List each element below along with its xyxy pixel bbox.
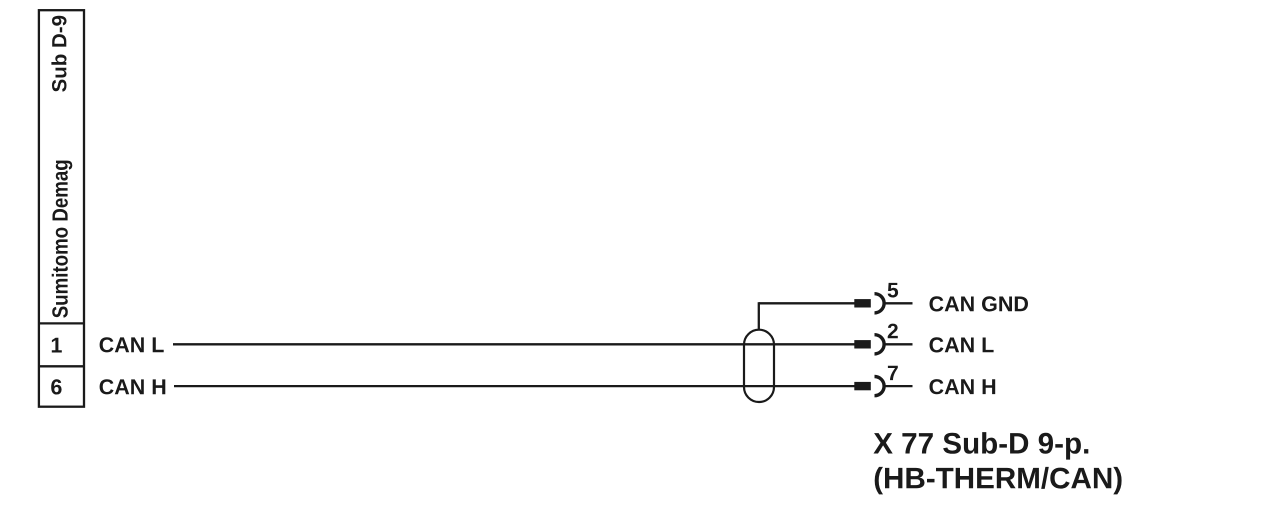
pin 2 contact socket arc — [875, 335, 885, 354]
pin 2 stub line — [884, 343, 912, 345]
pin 1 number — [52, 338, 62, 353]
pin 1 cell divider — [39, 322, 84, 324]
wire CAN GND horizontal — [759, 302, 856, 304]
pin 7 number — [888, 366, 898, 380]
connector X77 title line 2 — [875, 467, 1122, 495]
wire CAN L — [173, 343, 856, 345]
net label CAN L (left) — [100, 337, 164, 352]
pin 7 contact socket arc — [875, 377, 885, 396]
pin 2 number — [888, 324, 898, 339]
pin 5 net label CAN GND — [930, 296, 1029, 311]
pin 2 net label CAN L — [930, 337, 994, 352]
pin 7 stub line — [884, 385, 912, 387]
pin 5 contact socket arc — [875, 294, 885, 313]
wire CAN H — [174, 385, 856, 387]
pin 5 contact crimp — [854, 299, 871, 307]
pin 7 net label CAN H — [930, 379, 996, 394]
wire shield drain vertical — [758, 302, 760, 329]
pin 5 number — [888, 283, 899, 298]
connector X77 title line 1 — [874, 432, 1089, 460]
pin 6 cell divider — [39, 365, 84, 367]
connector J1 body (Sumitomo Demag Sub D-9) — [39, 10, 84, 407]
pin 6 number — [51, 379, 61, 394]
connector J1 label "Sub D-9" — [51, 16, 66, 92]
shield / twisted-pair symbol (capsule) — [744, 330, 774, 402]
connector J1 label "Sumitomo Demag" — [52, 161, 73, 318]
net label CAN H (left) — [100, 379, 166, 394]
pin 7 contact crimp — [854, 382, 871, 390]
pin 5 stub line — [884, 302, 912, 304]
pin 2 contact crimp — [854, 340, 871, 348]
